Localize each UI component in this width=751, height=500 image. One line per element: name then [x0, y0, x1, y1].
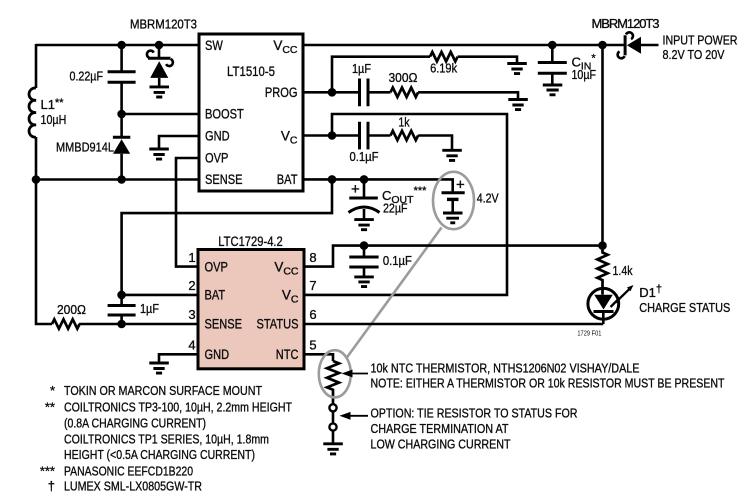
diode MMBD914L [56, 114, 130, 180]
node: junction dot supply/1.4k [598, 241, 607, 250]
svg-text:2: 2 [188, 278, 195, 293]
IC U1 LT1510-5 [199, 34, 303, 191]
svg-text:0.22µF: 0.22µF [70, 68, 104, 83]
wire: LTC1729 VCC pin 8 to supply rail [304, 246, 603, 267]
svg-text:MBRM120T3: MBRM120T3 [592, 16, 660, 31]
arrow: option callout [340, 412, 369, 420]
svg-text:NOTE: EITHER A THERMISTOR OR 1: NOTE: EITHER A THERMISTOR OR 10k RESISTO… [371, 376, 725, 391]
wire: 6.19k to ground [458, 57, 517, 63]
svg-text:200Ω: 200Ω [57, 302, 86, 317]
callout ellipse (battery) [433, 172, 474, 229]
callout ellipse (thermistor) [319, 350, 351, 397]
wire: SW top rail from left rail to LT1510 SW pin [36, 44, 199, 47]
svg-text:STATUS: STATUS [257, 317, 299, 332]
capacitor 1uF (PROG) [352, 61, 391, 106]
option terminal circle upper [329, 404, 336, 411]
ground (300ohm) [508, 100, 528, 110]
diode MBRM120T3 (input) [592, 16, 660, 58]
svg-text:†: † [48, 478, 55, 493]
svg-text:5: 5 [309, 338, 316, 353]
svg-text:TOKIN OR MARCON SURFACE MOUNT: TOKIN OR MARCON SURFACE MOUNT [64, 383, 262, 398]
ground (LTC1729 GND) [149, 363, 169, 373]
svg-text:INPUT POWER: INPUT POWER [663, 33, 738, 48]
svg-text:0.1µF: 0.1µF [383, 253, 412, 268]
svg-text:3: 3 [188, 307, 195, 322]
svg-text:HEIGHT (<0.5A CHARGING CURRENT: HEIGHT (<0.5A CHARGING CURRENT) [64, 447, 255, 462]
wire: VCC top rail to input diode [303, 44, 625, 47]
ground (6.19k) [507, 64, 527, 74]
ground (1k) [442, 150, 462, 160]
capacitor 0.1uF (LTC1729 VCC) [349, 246, 412, 277]
wire: LT1510 GND pin to ground [159, 136, 199, 149]
node: junction dot BAT pin2 /1uF [117, 291, 126, 300]
svg-text:COILTRONICS TP3-100, 10µH, 2.2: COILTRONICS TP3-100, 10µH, 2.2mm HEIGHT [64, 399, 292, 414]
svg-text:BAT: BAT [277, 172, 298, 187]
node: junction dot SENSE/1uF [117, 320, 126, 329]
svg-text:1: 1 [188, 250, 195, 265]
diode MBRM120T3 (catch diode at SW) [147, 45, 173, 87]
svg-text:COILTRONICS TP1 SERIES, 10µH,: COILTRONICS TP1 SERIES, 10µH, 1.8mm [64, 431, 269, 446]
wire: left rail lower segment down to 200 ohm row [36, 137, 52, 324]
node: junction dot SW / catch diode [155, 41, 164, 50]
svg-text:BOOST: BOOST [205, 107, 244, 122]
svg-text:GND: GND [205, 347, 230, 362]
svg-text:1.4k: 1.4k [613, 263, 633, 278]
inductor L1 10uH [29, 88, 66, 137]
svg-text:PANASONIC EEFCD1B220: PANASONIC EEFCD1B220 [64, 463, 193, 478]
svg-text:7: 7 [309, 278, 316, 293]
svg-text:10µF: 10µF [572, 67, 597, 82]
svg-text:22µF: 22µF [383, 200, 408, 215]
svg-text:SENSE: SENSE [205, 317, 243, 332]
wire: BAT rail from LT1510 to battery [303, 179, 453, 192]
wire: 1k to ground [418, 136, 452, 150]
svg-text:***: *** [40, 463, 55, 478]
capacitor 1uF (left) [108, 295, 159, 324]
wire: between option terminals [332, 411, 335, 423]
svg-text:+: + [456, 177, 465, 194]
svg-text:8.2V TO 20V: 8.2V TO 20V [663, 47, 725, 62]
node: junction dot CIN [548, 41, 557, 50]
wire: input rail vertical [601, 45, 604, 246]
wire: VC feedback loop to LTC1729 VC pin 7 [304, 114, 507, 295]
svg-text:MMBD914L: MMBD914L [56, 139, 114, 154]
ground (CIN) [543, 85, 563, 95]
svg-text:CHARGE STATUS: CHARGE STATUS [639, 300, 730, 315]
ground (catch diode) [150, 87, 170, 97]
wire: lower terminal to ground [332, 431, 335, 444]
svg-text:6.19k: 6.19k [430, 61, 457, 76]
svg-text:**: ** [45, 399, 55, 414]
resistor 6.19k [430, 52, 458, 76]
svg-text:MBRM120T3: MBRM120T3 [130, 17, 197, 32]
node: junction dot VC [328, 131, 337, 140]
resistor 1.4k [597, 246, 633, 295]
capacitor 0.22uF [70, 45, 136, 114]
resistor 200ohm [52, 302, 86, 328]
wire: BAT down to LTC1729 BAT pin 2 [122, 179, 332, 295]
svg-text:BAT: BAT [205, 288, 226, 303]
svg-text:*: * [50, 383, 55, 398]
LED D1 charge status [588, 284, 731, 324]
svg-text:+: + [351, 181, 360, 198]
svg-text:OPTION: TIE RESISTOR TO STATUS: OPTION: TIE RESISTOR TO STATUS FOR [371, 405, 578, 420]
ground (LT1510 GND) [149, 149, 169, 159]
svg-text:NTC: NTC [276, 347, 299, 362]
battery 4.2V [442, 177, 499, 223]
callout line battery to thermistor [347, 228, 442, 359]
svg-text:4.2V: 4.2V [477, 190, 499, 205]
svg-text:0.1µF: 0.1µF [350, 149, 379, 164]
svg-text:LOW CHARGING CURRENT: LOW CHARGING CURRENT [371, 436, 511, 451]
capacitor CIN 10uF [538, 45, 597, 85]
ground (COUT) [354, 220, 374, 230]
svg-text:1729 F01: 1729 F01 [577, 330, 601, 337]
wire: riser to 6.19k [332, 57, 430, 93]
ground (option) [323, 444, 343, 454]
capacitor 0.1uF (VC) [350, 122, 391, 164]
svg-text:4: 4 [188, 338, 195, 353]
ground (0.1uF right) [354, 277, 374, 287]
wire: STATUS pin 6 to LED [304, 323, 603, 326]
label: notes block [40, 383, 292, 493]
svg-text:1k: 1k [398, 114, 410, 129]
wire: OVP from LT1510 down to LTC1729 pin 1 [176, 158, 199, 267]
node: junction dot BAT/COUT [360, 175, 369, 184]
svg-text:LTC1729-4.2: LTC1729-4.2 [218, 234, 283, 249]
arrow: thermistor callout [342, 370, 369, 378]
wire: left rail upper segment [35, 44, 38, 88]
svg-text:OVP: OVP [205, 259, 228, 274]
svg-text:6: 6 [309, 307, 316, 322]
resistor 1k [391, 114, 419, 140]
node: junction dot SW / 0.22uF branch [117, 41, 126, 50]
wire: LTC1729 GND pin 4 to ground [159, 354, 198, 362]
node: junction dot PROG [328, 88, 337, 97]
svg-text:LUMEX SML-LX0805GW-TR: LUMEX SML-LX0805GW-TR [64, 478, 202, 493]
svg-text:(0.8A CHARGING CURRENT): (0.8A CHARGING CURRENT) [64, 415, 206, 430]
svg-text:SW: SW [205, 38, 223, 53]
wire: PROG pin to RC network [303, 91, 358, 94]
svg-text:300Ω: 300Ω [389, 70, 418, 85]
svg-text:GND: GND [205, 129, 230, 144]
wire: 300ohm to ground [418, 92, 518, 99]
node: junction dot SENSE line / diode anode [117, 175, 126, 184]
svg-text:1µF: 1µF [140, 301, 159, 316]
svg-text:CHARGE TERMINATION AT: CHARGE TERMINATION AT [371, 421, 509, 436]
thermistor 10k NTC [327, 361, 339, 405]
resistor 300ohm [389, 70, 419, 97]
wire: 200ohm to LTC1729 SENSE pin 3 [79, 323, 198, 326]
svg-text:10µH: 10µH [41, 112, 67, 127]
node: junction dot BOOST / cap / diode [117, 110, 126, 119]
svg-text:8: 8 [309, 250, 316, 265]
capacitor COUT 22uF (polarized) [349, 179, 428, 219]
svg-text:1µF: 1µF [352, 61, 371, 76]
svg-text:PROG: PROG [265, 85, 298, 100]
wire: VC pin to RC network [303, 134, 358, 137]
node: junction dot 0.1uF right [360, 241, 369, 250]
wire: NTC pin 5 to thermistor [304, 354, 333, 361]
svg-text:10k NTC THERMISTOR, NTHS1206N0: 10k NTC THERMISTOR, NTHS1206N02 VISHAY/D… [371, 361, 640, 376]
option terminal circle lower [329, 423, 336, 430]
node: junction dot input rail [598, 41, 607, 50]
node: junction dot BAT/down-wire [328, 175, 337, 184]
IC U2 LTC1729-4.2 [188, 234, 316, 369]
svg-text:SENSE: SENSE [205, 172, 243, 187]
wire: BOOST pin wire [122, 113, 199, 116]
wire: LT1510 SENSE pin wire [36, 178, 199, 181]
svg-text:OVP: OVP [205, 151, 228, 166]
node: junction dot left rail / LT1510 SENSE [32, 175, 41, 184]
svg-text:LT1510-5: LT1510-5 [227, 64, 275, 79]
